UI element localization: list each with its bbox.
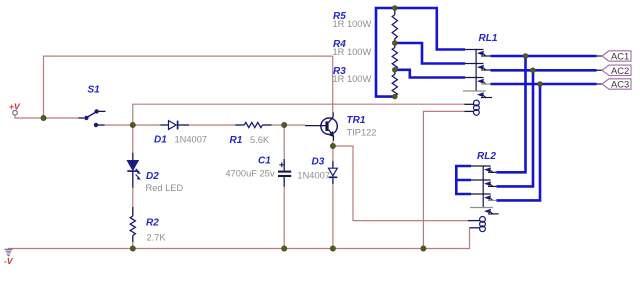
svg-text:Red LED: Red LED bbox=[146, 183, 184, 193]
svg-text:TR1: TR1 bbox=[347, 115, 366, 126]
wire D1 to R1 bbox=[189, 124, 235, 126]
terminal AC3 bbox=[597, 79, 632, 89]
wire RL1 coil bottom drop bbox=[423, 111, 464, 248]
svg-text:RL2: RL2 bbox=[477, 151, 496, 162]
wire D3 to ground rail bbox=[332, 184, 334, 249]
wire node B riser and rail to RL1 coil bbox=[133, 104, 465, 125]
transistor TR1 bbox=[305, 112, 337, 141]
relay contacts RL2 bbox=[470, 166, 499, 215]
wire C1 to ground rail bbox=[283, 187, 285, 249]
svg-text:2.7K: 2.7K bbox=[147, 232, 167, 242]
junction R5-R4 bbox=[393, 41, 398, 46]
junction node A at +V riser bbox=[41, 116, 46, 121]
junction node B at D2 branch bbox=[130, 123, 135, 128]
relay coil RL2 bbox=[468, 217, 485, 232]
wire thick RL2 common bus bbox=[456, 166, 471, 194]
LED D2 bbox=[127, 153, 141, 188]
terminal -V bbox=[5, 249, 13, 256]
svg-text:C1: C1 bbox=[258, 156, 271, 167]
wire thick R5 top to RL1 contact 1 bbox=[395, 8, 465, 50]
wire thick AC2 line bbox=[491, 69, 597, 72]
wire node C down to C1 bbox=[283, 125, 285, 159]
svg-text:1R 100W: 1R 100W bbox=[333, 19, 372, 29]
junction ground at C1 bbox=[282, 246, 287, 251]
wire thick AC2 drop to RL2 contact 2 bbox=[497, 70, 534, 186]
junction R5 top bbox=[393, 6, 398, 11]
svg-text:1N4007: 1N4007 bbox=[297, 171, 330, 181]
junction ground at RL1 coil drop bbox=[421, 246, 426, 251]
svg-text:D1: D1 bbox=[154, 135, 167, 146]
wire R1 to base node bbox=[272, 124, 305, 126]
relay contacts RL1 bbox=[463, 49, 492, 98]
junction ground at R2 bbox=[130, 246, 135, 251]
wire thick AC3 line bbox=[491, 83, 597, 86]
diode D3 bbox=[329, 161, 338, 184]
resistor R1 bbox=[235, 122, 271, 127]
svg-text:1R 100W: 1R 100W bbox=[333, 47, 372, 57]
svg-text:D2: D2 bbox=[146, 171, 159, 182]
resistor R3 bbox=[392, 70, 397, 97]
svg-text:R2: R2 bbox=[146, 217, 159, 228]
capacitor C1 bbox=[278, 159, 291, 187]
svg-text:AC3: AC3 bbox=[611, 79, 629, 90]
wire R2 to ground rail bbox=[132, 242, 134, 248]
junction AC3 tap bbox=[538, 82, 543, 87]
wire node D to RL2 coil top bbox=[333, 146, 468, 221]
wire node B down to D2 bbox=[132, 125, 134, 153]
junction ground at D3 bbox=[330, 246, 335, 251]
wire thick shunt U around resistor chain bbox=[376, 8, 395, 97]
resistor R4 bbox=[392, 43, 397, 70]
junction R4-R3 bbox=[393, 68, 398, 73]
wire +V riser and top rail to collector bbox=[44, 56, 333, 118]
resistor R5 bbox=[392, 8, 397, 43]
wire switch to node B bbox=[105, 124, 161, 126]
terminal AC2 bbox=[597, 65, 632, 75]
wire collector drop bbox=[332, 56, 334, 112]
svg-text:-V: -V bbox=[4, 256, 14, 266]
junction node D at emitter bbox=[330, 144, 335, 149]
svg-text:S1: S1 bbox=[88, 85, 101, 96]
svg-text:AC2: AC2 bbox=[611, 65, 629, 76]
svg-text:TIP122: TIP122 bbox=[347, 128, 377, 138]
junction R3 bottom bbox=[393, 94, 398, 99]
terminal +V bbox=[13, 110, 18, 115]
diode D1 bbox=[160, 121, 189, 130]
svg-text:4700uF 25v: 4700uF 25v bbox=[225, 169, 274, 179]
wire node D down to D3 bbox=[332, 146, 334, 161]
wire emitter to node D bbox=[332, 141, 334, 146]
wire D2 to R2 bbox=[132, 188, 134, 207]
svg-text:R1: R1 bbox=[230, 135, 243, 146]
svg-text:AC1: AC1 bbox=[611, 51, 629, 62]
svg-text:+V: +V bbox=[9, 102, 21, 112]
junction AC1 tap bbox=[523, 54, 528, 59]
switch S1 bbox=[79, 109, 106, 127]
wire thick R4-R3 tap to RL1 contact 3 bbox=[395, 70, 465, 78]
wire thick AC1 drop to RL2 contact 1 bbox=[497, 56, 526, 172]
wire thick R5-R4 tap to RL1 contact 2 bbox=[395, 43, 465, 64]
svg-text:1N4007: 1N4007 bbox=[175, 135, 208, 145]
resistor R2 bbox=[130, 207, 135, 242]
wire ground rail bbox=[8, 228, 470, 249]
svg-text:5.6K: 5.6K bbox=[250, 135, 270, 145]
svg-text:D3: D3 bbox=[312, 157, 325, 168]
junction AC2 tap bbox=[531, 68, 536, 73]
wire +V to switch common bbox=[15, 115, 79, 118]
svg-text:1R 100W: 1R 100W bbox=[333, 74, 372, 84]
svg-text:RL1: RL1 bbox=[479, 33, 498, 44]
wire thick AC1 line bbox=[491, 55, 597, 58]
terminal AC1 bbox=[597, 51, 632, 61]
relay coil RL1 bbox=[465, 100, 480, 115]
wire thick AC3 drop to RL2 contact 3 bbox=[497, 84, 541, 200]
junction node C at C1 branch bbox=[282, 123, 287, 128]
